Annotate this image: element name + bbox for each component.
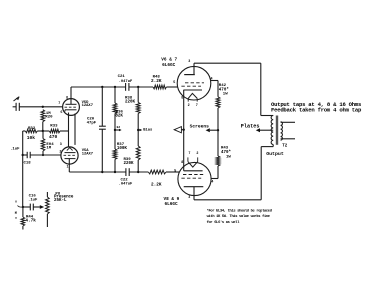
svg-text:1W: 1W [223,93,228,97]
svg-text:8: 8 [66,96,68,100]
svg-text:2.2K: 2.2K [151,79,162,84]
svg-text:5: 5 [174,169,176,173]
svg-text:R32: R32 [28,127,36,131]
svg-text:.047uF: .047uF [119,80,133,84]
svg-text:47pF: 47pF [87,122,97,126]
svg-text:C18: C18 [24,162,32,166]
svg-text:12AX7: 12AX7 [82,104,94,108]
svg-text:T2: T2 [282,145,288,149]
svg-text:2: 2 [59,151,61,155]
svg-text:470*: 470* [221,150,232,155]
svg-text:5: 5 [173,81,175,85]
svg-text:R20: R20 [45,116,53,120]
svg-text:220K: 220K [124,162,135,166]
svg-text:M: M [15,212,17,216]
svg-text:220K: 220K [125,100,136,104]
svg-text:470: 470 [49,134,58,140]
svg-text:7: 7 [58,102,60,106]
svg-text:.1uF: .1uF [28,199,38,203]
svg-text:100K: 100K [117,147,128,151]
svg-text:3: 3 [188,60,190,64]
svg-text:for 6L6's as well: for 6L6's as well [207,220,241,225]
svg-text:Feedback taken from 4 ohm tap: Feedback taken from 4 ohm tap [271,107,362,114]
svg-text:1W: 1W [226,156,231,160]
svg-text:2: 2 [188,104,190,108]
svg-text:.047uF: .047uF [119,183,133,187]
svg-text:2: 2 [196,152,198,156]
svg-text:2.2K: 2.2K [151,182,162,187]
svg-text:R33: R33 [50,125,58,129]
svg-text:8: 8 [181,161,183,165]
svg-text:3: 3 [188,196,190,200]
svg-text:V6 & 7: V6 & 7 [161,57,177,62]
svg-text:82K: 82K [115,114,123,118]
svg-text:25K-L: 25K-L [54,199,67,203]
svg-text:4.7k: 4.7k [25,219,36,224]
svg-text:Plates: Plates [241,123,260,129]
svg-text:7: 7 [196,104,198,108]
svg-text:3: 3 [60,143,62,147]
svg-text:1M: 1M [46,146,51,150]
svg-text:*For EL34, this should be repl: *For EL34, this should be replaced [207,208,272,213]
svg-text:C21: C21 [118,75,126,79]
svg-text:Output: Output [266,151,284,157]
svg-text:12AX7: 12AX7 [82,152,94,156]
svg-text:Screens: Screens [190,123,210,129]
svg-text:6: 6 [60,111,62,115]
svg-text:6L6GC: 6L6GC [162,63,176,68]
svg-text:BJ: BJ [117,126,121,129]
svg-text:1: 1 [67,165,69,169]
svg-text:R42: R42 [219,84,227,88]
svg-text:10k: 10k [27,135,36,141]
svg-text:6L6GC: 6L6GC [165,202,179,207]
svg-text:Bias: Bias [143,127,153,132]
svg-text:4: 4 [211,181,213,185]
svg-text:7: 7 [188,152,190,156]
svg-text:with 1K 5W. This value works f: with 1K 5W. This value works fine [207,214,271,219]
svg-text:8: 8 [181,96,183,100]
svg-text:.1uF: .1uF [10,148,20,152]
